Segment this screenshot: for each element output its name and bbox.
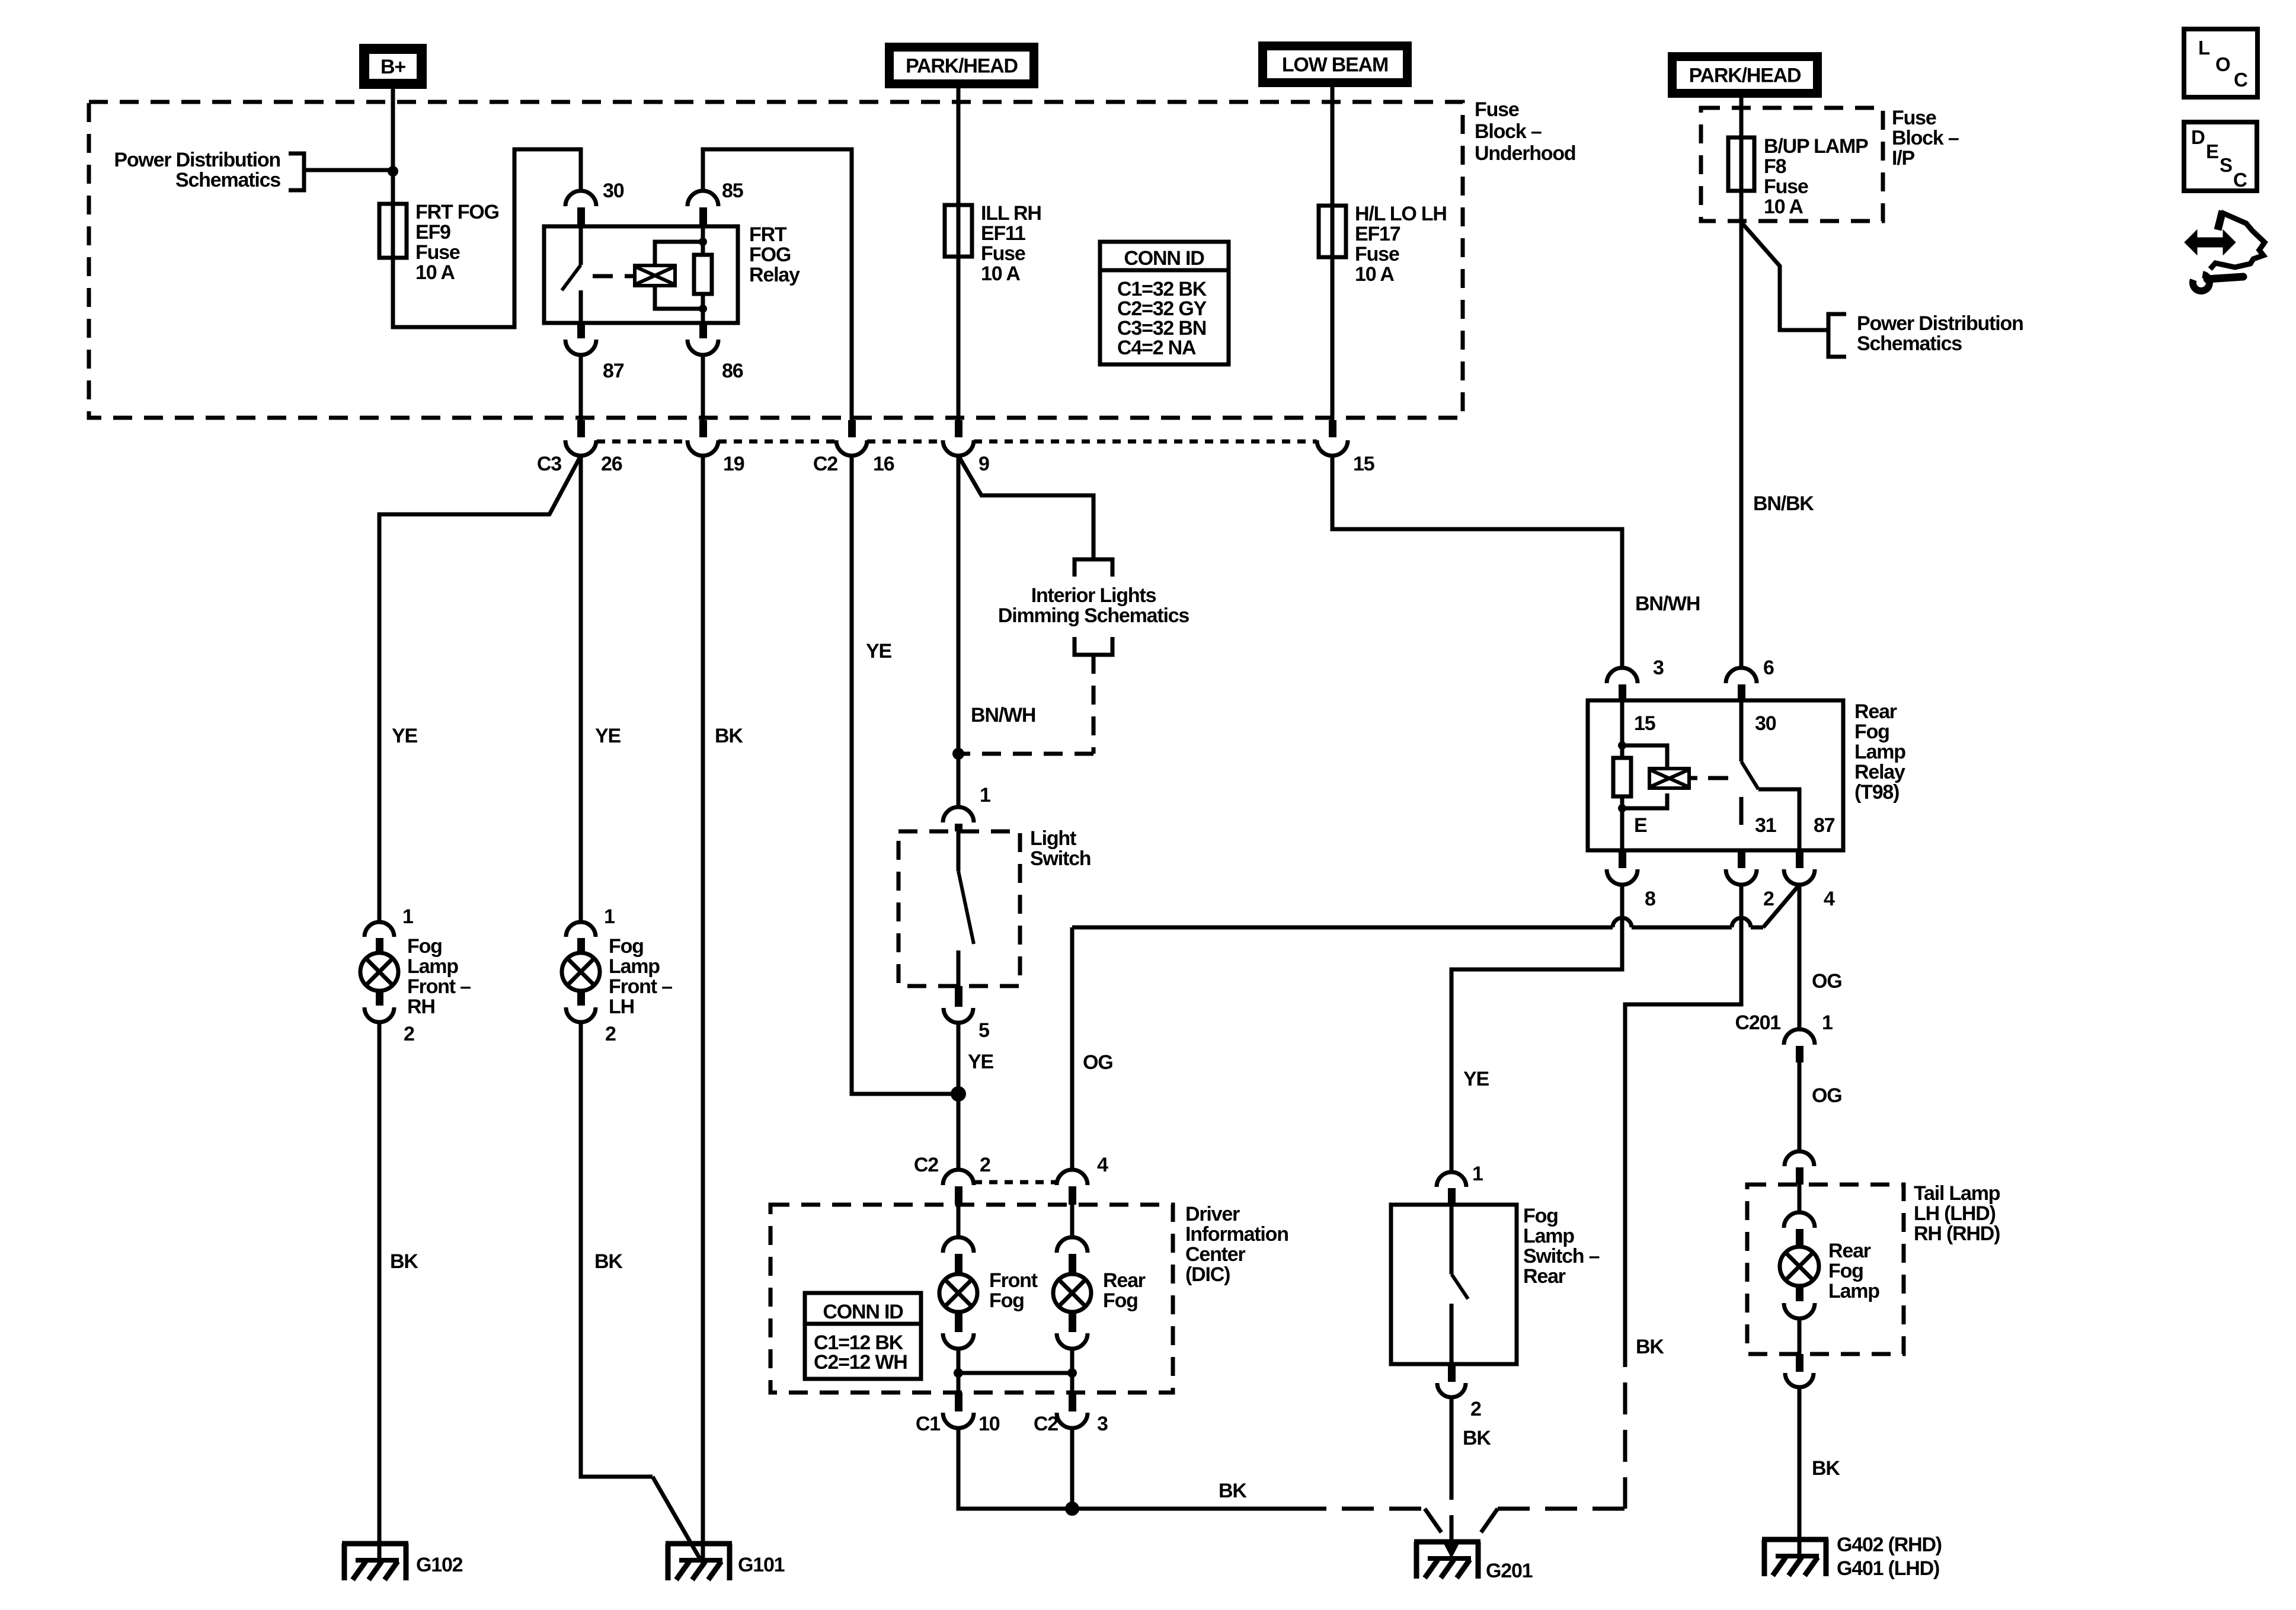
relay T98 resistor branch: [1620, 700, 1625, 758]
wire pin 19 BK down to G101: [701, 456, 705, 1565]
node junction at power distribution tap: [388, 166, 398, 177]
wire DIC grounds BK to rail: [958, 1428, 1294, 1509]
node BN/WH junction: [952, 748, 964, 760]
svg-text:87: 87: [1814, 814, 1835, 837]
connector pin 15: [1329, 420, 1336, 437]
dashed BK wire down to rail: [1623, 1335, 1627, 1509]
svg-text:Switch: Switch: [1030, 847, 1091, 870]
svg-text:19: 19: [723, 453, 744, 475]
svg-text:Lamp: Lamp: [609, 955, 660, 978]
power distribution schematics bracket right: [1828, 314, 1846, 357]
svg-text:RH (RHD): RH (RHD): [1914, 1222, 2000, 1245]
ground G101: [666, 1541, 732, 1547]
svg-text:BK: BK: [594, 1250, 623, 1273]
power feed box LOW BEAM: [1258, 41, 1412, 87]
svg-text:OG: OG: [1083, 1051, 1113, 1074]
wire branch to power distribution bracket: [1741, 222, 1828, 330]
svg-text:C3: C3: [537, 453, 561, 475]
svg-text:E: E: [2206, 140, 2218, 162]
svg-text:15: 15: [1353, 453, 1374, 475]
rear fog lamp bulb: [1798, 1185, 1802, 1212]
svg-text:6: 6: [1763, 657, 1774, 679]
svg-text:OG: OG: [1812, 1084, 1842, 1107]
connector DIC C1 pin 10: [955, 1393, 962, 1411]
wire BK to ground G402/G401: [1798, 1387, 1802, 1561]
connector C3 pin 26: [577, 420, 585, 437]
svg-text:PARK/HEAD: PARK/HEAD: [1689, 65, 1801, 87]
svg-text:BN/WH: BN/WH: [1635, 593, 1700, 615]
svg-text:30: 30: [1755, 712, 1776, 735]
connector pin 9: [955, 420, 962, 437]
relay pin 86 connector: [699, 323, 707, 338]
svg-text:FRT: FRT: [749, 223, 787, 246]
light switch dashed box: [898, 831, 1020, 986]
ground G402 G401: [1762, 1537, 1828, 1542]
node ground rail junction: [1065, 1502, 1079, 1516]
svg-text:Fuse: Fuse: [1764, 175, 1808, 198]
svg-text:Relay: Relay: [1854, 761, 1905, 783]
svg-text:3: 3: [1097, 1413, 1108, 1435]
connector pin 19: [699, 420, 707, 437]
relay FRT FOG pin 85 connector: [687, 191, 718, 206]
svg-text:CONN ID: CONN ID: [823, 1301, 903, 1323]
svg-text:Light: Light: [1030, 827, 1076, 850]
relay FRT FOG pin 30 connector: [565, 191, 596, 206]
svg-text:Dimming Schematics: Dimming Schematics: [998, 604, 1189, 627]
dashed BK wire to G201: [1450, 1468, 1454, 1541]
node coil bottom: [699, 305, 707, 313]
fog lamp switch contact: [1450, 1205, 1454, 1274]
svg-text:2: 2: [1470, 1398, 1481, 1420]
interior lights dimming bracket top: [1075, 559, 1112, 577]
svg-text:C4=2 NA: C4=2 NA: [1117, 337, 1196, 359]
svg-text:Block –: Block –: [1475, 120, 1542, 143]
tail lamp exit connector: [1796, 1354, 1803, 1372]
node tie right: [1067, 1368, 1077, 1378]
svg-text:Front –: Front –: [407, 975, 471, 998]
svg-text:1: 1: [1822, 1012, 1833, 1034]
svg-text:Schematics: Schematics: [1857, 332, 1962, 355]
svg-text:10 A: 10 A: [415, 261, 455, 284]
wire C3-26 down to fog lamp front LH: [579, 456, 583, 922]
svg-text:RH: RH: [407, 996, 435, 1018]
svg-text:Schematics: Schematics: [175, 169, 280, 191]
svg-text:10 A: 10 A: [981, 263, 1020, 285]
svg-text:(T98): (T98): [1854, 781, 1899, 804]
dotted connector line DIC: [974, 1180, 1057, 1185]
wire PARK/HEAD to fuse F8: [1739, 98, 1744, 191]
svg-text:Fog: Fog: [407, 935, 442, 958]
wire fuse F8 BN/BK down to relay pin 6: [1739, 191, 1744, 668]
node YE junction: [951, 1086, 966, 1102]
ground G201 with arrow: [1414, 1539, 1480, 1545]
svg-text:BK: BK: [1219, 1480, 1247, 1502]
power distribution schematics reference bracket: [289, 153, 304, 190]
svg-text:LOW BEAM: LOW BEAM: [1282, 54, 1388, 76]
legend DESC box: [2184, 122, 2257, 191]
svg-text:85: 85: [722, 180, 743, 202]
svg-text:Lamp: Lamp: [1523, 1225, 1574, 1247]
svg-text:Center: Center: [1185, 1243, 1245, 1266]
svg-text:F8: F8: [1764, 155, 1786, 178]
node coil top: [699, 238, 707, 246]
svg-text:E: E: [1634, 814, 1647, 837]
svg-text:C201: C201: [1735, 1012, 1781, 1034]
svg-text:2: 2: [1763, 888, 1774, 910]
svg-text:Fuse: Fuse: [415, 241, 460, 264]
svg-text:1: 1: [604, 905, 615, 928]
svg-text:Rear: Rear: [1103, 1269, 1146, 1292]
svg-text:2: 2: [980, 1154, 990, 1176]
tail lamp connector: [1785, 1151, 1814, 1166]
svg-text:Switch –: Switch –: [1523, 1245, 1600, 1267]
wire PARK/HEAD to fuse EF11: [957, 88, 961, 257]
wire to power distribution bracket: [306, 168, 393, 172]
svg-text:C1: C1: [916, 1413, 940, 1435]
wire pin 87 to connector C3-26: [579, 355, 583, 420]
DIC dashed box: [770, 1205, 1173, 1393]
fog lamp switch rear box: [1391, 1205, 1517, 1364]
svg-text:31: 31: [1755, 814, 1776, 837]
ground G102: [342, 1541, 408, 1547]
svg-text:Fog: Fog: [609, 935, 644, 958]
svg-text:H/L LO LH: H/L LO LH: [1355, 203, 1447, 225]
svg-text:26: 26: [601, 453, 622, 475]
svg-text:LH (LHD): LH (LHD): [1914, 1202, 1996, 1225]
wire coil parallel loop: [655, 242, 703, 265]
svg-text:Rear: Rear: [1854, 700, 1897, 723]
svg-text:YE: YE: [595, 725, 621, 747]
svg-text:Block –: Block –: [1892, 127, 1959, 149]
connector C2 pin 16: [848, 420, 856, 437]
svg-text:Fog: Fog: [989, 1289, 1024, 1312]
wire C2-16 YE down to switched node: [852, 456, 958, 1094]
light switch contact: [957, 831, 961, 871]
indicator front fog in DIC: [957, 1205, 961, 1237]
relay T98 pin 4 connector: [1796, 850, 1803, 868]
svg-text:EF9: EF9: [415, 221, 450, 244]
svg-text:G101: G101: [738, 1554, 785, 1576]
wire relay pin 4 OG to DIC rear fog: [1763, 885, 1799, 927]
svg-text:1: 1: [1472, 1163, 1483, 1185]
relay switch-coil dashed link: [593, 274, 613, 279]
wire fog lamp LH BK to ground G101: [581, 1022, 653, 1477]
connector table CONN ID underhood: [1100, 242, 1229, 364]
legend vehicle icon with arrow and wrench: [2185, 211, 2265, 291]
svg-text:Interior Lights: Interior Lights: [1031, 584, 1156, 607]
svg-text:(DIC): (DIC): [1185, 1263, 1230, 1286]
svg-text:3: 3: [1653, 657, 1664, 679]
svg-text:15: 15: [1634, 712, 1655, 735]
svg-text:Tail Lamp: Tail Lamp: [1914, 1182, 2000, 1205]
svg-text:YE: YE: [392, 725, 417, 747]
fuse EF11 ILL RH 10A: [945, 205, 972, 257]
legend LOC box: [2184, 29, 2257, 97]
connector table CONN ID DIC: [805, 1293, 921, 1379]
svg-text:Driver: Driver: [1185, 1203, 1240, 1225]
relay coil: [635, 265, 675, 286]
relay T98 switch contact: [1739, 700, 1744, 761]
svg-text:Fuse: Fuse: [1892, 107, 1936, 129]
svg-text:Fuse: Fuse: [1475, 98, 1519, 121]
svg-text:BK: BK: [1636, 1336, 1664, 1358]
svg-text:Front –: Front –: [609, 975, 672, 998]
svg-text:C2=12 WH: C2=12 WH: [814, 1351, 907, 1374]
wire BK from switch: [1450, 1397, 1454, 1468]
svg-text:86: 86: [722, 360, 743, 382]
wire B+ down to fuse EF9: [391, 89, 395, 258]
svg-text:16: 16: [873, 453, 894, 475]
wire relay pin 4 OG down to C201: [1798, 885, 1802, 1029]
svg-text:BN/WH: BN/WH: [971, 704, 1035, 726]
svg-text:Fog: Fog: [1523, 1205, 1558, 1227]
power feed box PARK/HEAD right: [1668, 52, 1822, 98]
svg-text:B/UP LAMP: B/UP LAMP: [1764, 135, 1868, 158]
wire fuse EF9 to relay pin 30: [393, 149, 581, 327]
svg-text:FRT FOG: FRT FOG: [415, 201, 499, 223]
resistor in relay: [701, 226, 705, 255]
fog lamp switch pin 2 connector: [1448, 1364, 1456, 1382]
relay T98 coil-switch dashed link: [1708, 776, 1728, 780]
svg-text:10: 10: [978, 1413, 1000, 1435]
svg-text:EF17: EF17: [1355, 223, 1400, 245]
svg-text:Fuse: Fuse: [1355, 243, 1399, 265]
relay T98 pin 8 connector: [1619, 850, 1626, 868]
node relay coil top: [1618, 741, 1626, 750]
svg-text:OG: OG: [1812, 970, 1842, 993]
svg-text:C: C: [2234, 69, 2247, 91]
wire LOW BEAM to fuse EF17: [1331, 87, 1335, 257]
power feed box PARK/HEAD: [885, 43, 1038, 88]
svg-text:Power Distribution: Power Distribution: [114, 149, 280, 171]
svg-text:Fog: Fog: [1103, 1289, 1138, 1312]
wire fuse EF11 to connector pin 9: [957, 257, 961, 420]
svg-text:ILL RH: ILL RH: [981, 202, 1041, 225]
relay T98 pin 2 connector: [1738, 850, 1745, 868]
svg-text:BK: BK: [715, 725, 743, 747]
wire OG from C201 to tail lamp: [1798, 1062, 1802, 1151]
wire pin 9 BN/WH to interior lights tap: [958, 456, 1093, 559]
node tie left: [954, 1368, 963, 1378]
svg-text:1: 1: [980, 784, 990, 806]
power feed box B+: [359, 44, 427, 89]
svg-text:Rear: Rear: [1523, 1265, 1566, 1288]
svg-text:G102: G102: [416, 1554, 463, 1576]
wire pin 9 down to light switch: [957, 456, 961, 807]
fuse F8 B/UP LAMP 10A: [1728, 137, 1754, 191]
wire relay pin 85 up and over to connector C2-16: [703, 149, 852, 420]
dashed BK rail to G201: [1294, 1507, 1425, 1511]
svg-text:C: C: [2233, 169, 2247, 191]
svg-text:YE: YE: [968, 1051, 993, 1073]
svg-text:FOG: FOG: [749, 244, 791, 266]
relay T98 coil: [1622, 745, 1667, 769]
svg-text:Lamp: Lamp: [1854, 741, 1905, 763]
svg-text:10 A: 10 A: [1355, 263, 1394, 286]
svg-text:BK: BK: [1463, 1427, 1491, 1449]
svg-text:2: 2: [605, 1023, 616, 1045]
fuse block I/P dashed box: [1701, 108, 1883, 221]
svg-text:87: 87: [603, 360, 624, 382]
svg-text:10 A: 10 A: [1764, 196, 1803, 218]
svg-text:9: 9: [978, 453, 989, 475]
svg-text:Fuse: Fuse: [981, 242, 1025, 265]
svg-text:5: 5: [978, 1019, 989, 1042]
svg-text:C2: C2: [914, 1154, 938, 1176]
svg-text:Lamp: Lamp: [407, 955, 458, 978]
svg-text:Fog: Fog: [1854, 721, 1889, 743]
svg-text:EF11: EF11: [981, 222, 1025, 245]
wire fog lamp RH BK to ground: [378, 1022, 382, 1565]
svg-text:LH: LH: [609, 996, 634, 1018]
wire pin 15 to relay pin 3 BN/WH: [1332, 456, 1622, 668]
relay Rear Fog Lamp Relay box: [1588, 700, 1843, 850]
fuse EF9 FRT FOG 10A: [379, 204, 407, 258]
connector DIC C2 pin 3: [1069, 1393, 1076, 1411]
svg-text:S: S: [2220, 154, 2232, 176]
wire pin 86 to connector 19: [701, 355, 705, 420]
fuse EF17 H/L LO LH 10A: [1319, 206, 1346, 257]
fuse block underhood dashed box: [89, 102, 1463, 418]
svg-text:I/P: I/P: [1892, 147, 1914, 169]
indicator rear fog in DIC: [1070, 1205, 1075, 1237]
svg-text:Fog: Fog: [1828, 1260, 1863, 1282]
svg-text:C2: C2: [813, 453, 837, 475]
svg-text:O: O: [2215, 53, 2230, 75]
svg-text:C2: C2: [1034, 1413, 1058, 1435]
svg-text:1: 1: [402, 905, 413, 928]
wire fuse EF17 to connector pin 15: [1331, 257, 1335, 420]
wire indicator ground tie: [958, 1371, 1072, 1375]
svg-text:G201: G201: [1486, 1560, 1533, 1582]
dashed link to BN/WH node: [1092, 655, 1096, 754]
svg-text:Relay: Relay: [749, 264, 800, 286]
svg-text:Rear: Rear: [1828, 1240, 1871, 1262]
svg-text:BK: BK: [390, 1250, 418, 1273]
svg-text:Power Distribution: Power Distribution: [1857, 312, 2023, 335]
svg-text:Front: Front: [989, 1269, 1038, 1292]
wire relay pin 8 YE to fog lamp switch: [1451, 885, 1622, 1172]
svg-text:Information: Information: [1185, 1223, 1288, 1246]
svg-text:Lamp: Lamp: [1828, 1280, 1879, 1302]
svg-text:D: D: [2191, 126, 2205, 148]
svg-text:CONN ID: CONN ID: [1124, 247, 1204, 270]
svg-text:30: 30: [603, 180, 624, 202]
wire C3-26 to fog lamp front RH: [379, 456, 581, 922]
node relay coil bottom: [1618, 804, 1626, 812]
svg-text:8: 8: [1645, 888, 1655, 910]
tail lamp dashed box: [1747, 1185, 1904, 1354]
svg-text:G401 (LHD): G401 (LHD): [1837, 1557, 1939, 1580]
light switch pin 5 connector: [955, 986, 962, 1007]
relay switch contact: [579, 226, 583, 265]
svg-text:PARK/HEAD: PARK/HEAD: [906, 55, 1018, 78]
connector row dotted line: [597, 440, 687, 444]
svg-text:4: 4: [1097, 1154, 1108, 1176]
svg-text:2: 2: [404, 1023, 414, 1045]
svg-text:YE: YE: [866, 640, 891, 662]
svg-text:4: 4: [1824, 888, 1835, 910]
svg-text:BK: BK: [1812, 1457, 1840, 1480]
svg-text:B+: B+: [380, 56, 405, 78]
svg-text:YE: YE: [1463, 1068, 1489, 1090]
relay FRT FOG box: [544, 226, 738, 323]
wire relay pin 2 BK to ground rail: [1625, 885, 1741, 1335]
interior lights dimming bracket bottom: [1075, 637, 1112, 655]
svg-text:Underhood: Underhood: [1475, 142, 1576, 165]
relay pin 87 connector: [577, 323, 585, 338]
svg-text:L: L: [2198, 37, 2210, 59]
svg-text:G402 (RHD): G402 (RHD): [1837, 1534, 1942, 1556]
wire YE from light switch: [957, 1023, 961, 1170]
svg-text:BN/BK: BN/BK: [1753, 492, 1814, 515]
